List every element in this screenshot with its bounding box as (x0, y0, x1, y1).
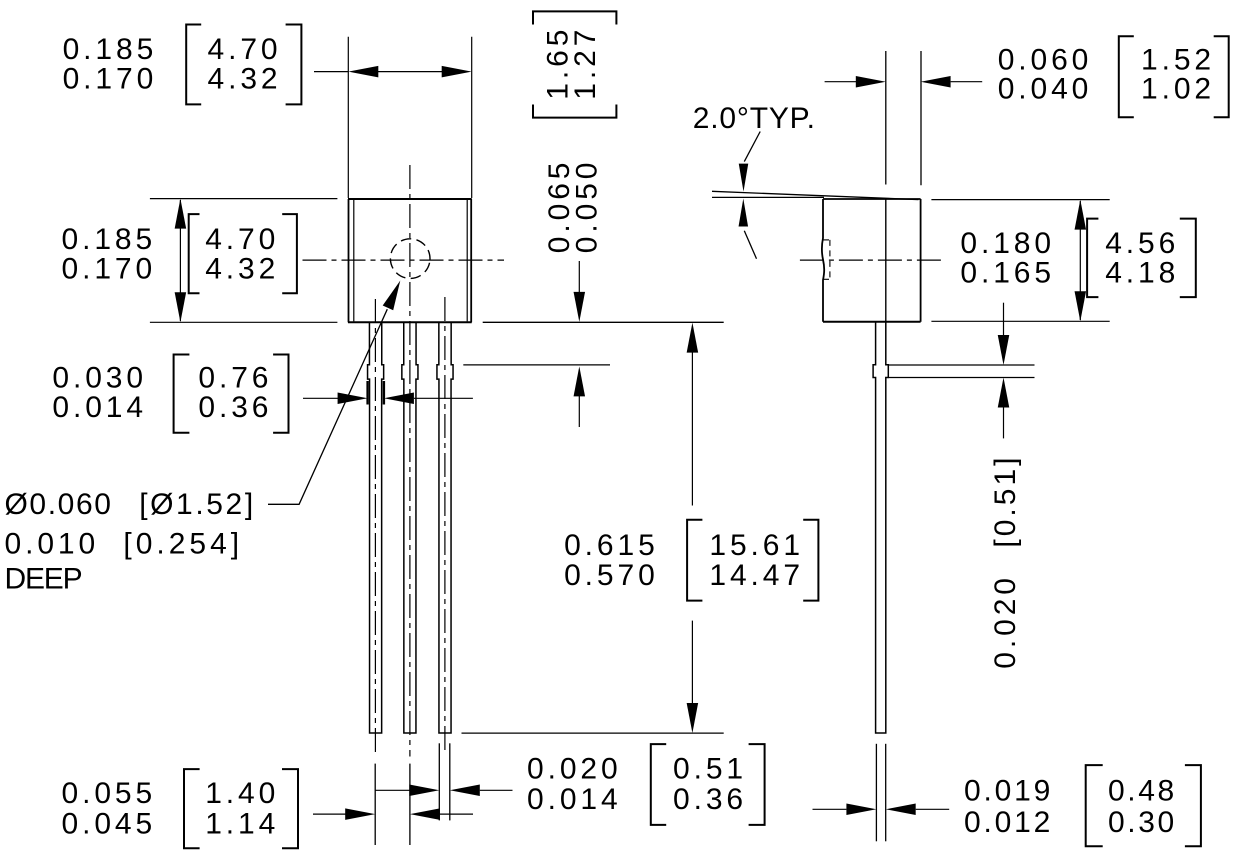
svg-text:[Ø1.52]: [Ø1.52] (139, 488, 256, 521)
svg-text:0.030: 0.030 (52, 361, 147, 394)
svg-text:0.014: 0.014 (52, 391, 147, 424)
svg-text:4.70: 4.70 (208, 33, 282, 66)
svg-text:0.014: 0.014 (527, 783, 622, 816)
svg-text:0.185: 0.185 (63, 33, 158, 66)
svg-text:0.020: 0.020 (989, 574, 1022, 669)
svg-text:0.36: 0.36 (673, 783, 747, 816)
svg-text:0.019: 0.019 (964, 775, 1053, 808)
svg-text:0.050: 0.050 (571, 159, 604, 254)
svg-text:0.30: 0.30 (1108, 806, 1177, 839)
svg-text:0.010: 0.010 (5, 528, 100, 561)
svg-text:Ø0.060: Ø0.060 (5, 488, 113, 521)
svg-text:0.76: 0.76 (198, 361, 272, 394)
svg-text:0.012: 0.012 (964, 806, 1053, 839)
svg-text:4.18: 4.18 (1105, 256, 1179, 289)
svg-text:[0.51]: [0.51] (989, 455, 1022, 548)
svg-text:1.40: 1.40 (205, 777, 279, 810)
svg-text:1.27: 1.27 (569, 26, 602, 100)
svg-text:0.055: 0.055 (62, 777, 157, 810)
svg-text:0.040: 0.040 (998, 72, 1093, 105)
svg-text:0.51: 0.51 (673, 752, 747, 785)
svg-text:0.045: 0.045 (62, 807, 157, 840)
svg-text:0.180: 0.180 (960, 227, 1055, 260)
svg-text:2.0°TYP.: 2.0°TYP. (693, 102, 816, 135)
svg-text:4.32: 4.32 (205, 252, 279, 285)
svg-text:0.170: 0.170 (63, 63, 158, 96)
svg-text:0.185: 0.185 (62, 223, 157, 256)
svg-text:15.61: 15.61 (709, 529, 804, 562)
svg-text:1.14: 1.14 (205, 807, 279, 840)
svg-text:DEEP: DEEP (5, 562, 82, 595)
svg-text:0.170: 0.170 (62, 252, 157, 285)
svg-text:0.570: 0.570 (564, 559, 659, 592)
svg-text:[0.254]: [0.254] (123, 528, 243, 561)
svg-text:0.020: 0.020 (527, 752, 622, 785)
svg-text:0.36: 0.36 (198, 391, 272, 424)
svg-text:1.02: 1.02 (1141, 72, 1215, 105)
svg-text:4.70: 4.70 (205, 223, 279, 256)
svg-text:14.47: 14.47 (709, 559, 804, 592)
svg-text:0.165: 0.165 (960, 256, 1055, 289)
svg-text:4.32: 4.32 (208, 63, 282, 96)
svg-text:0.615: 0.615 (564, 529, 659, 562)
svg-text:0.48: 0.48 (1108, 775, 1177, 808)
svg-text:4.56: 4.56 (1105, 227, 1179, 260)
